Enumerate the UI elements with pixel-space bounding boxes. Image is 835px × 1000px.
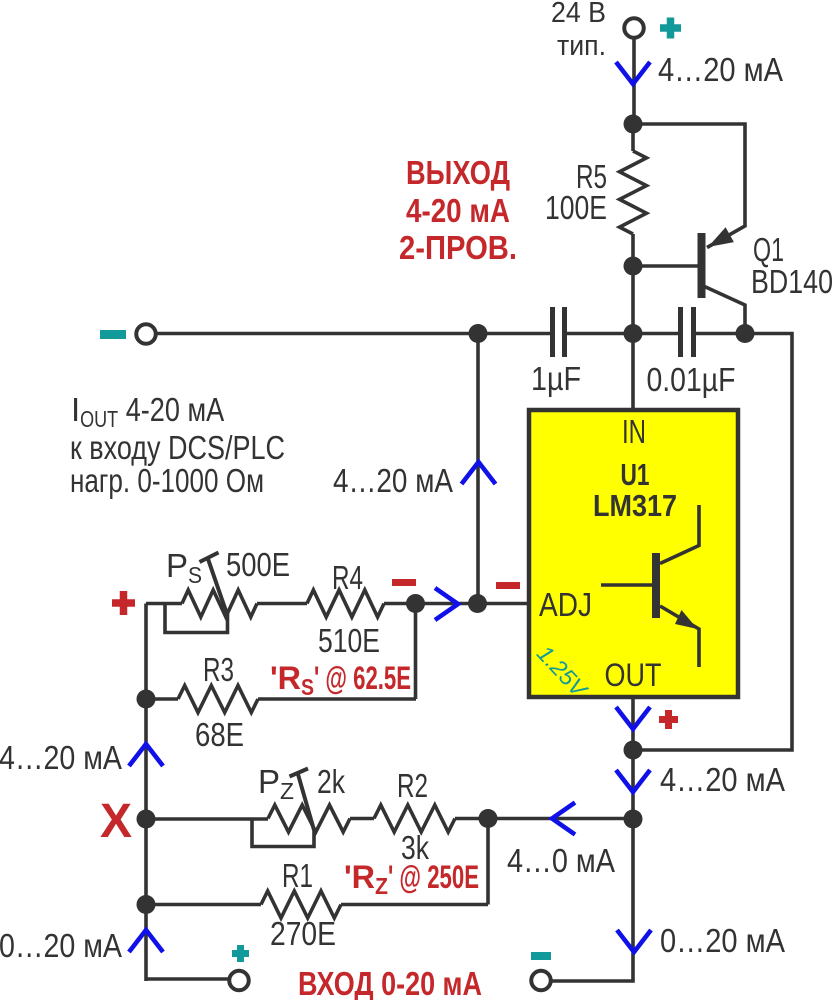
potentiometer Ps element bbox=[182, 590, 257, 617]
terminal input minus bbox=[531, 971, 551, 991]
wire R2 to feedback node bbox=[455, 817, 633, 821]
plus sign input (teal) bbox=[232, 950, 249, 957]
node ADJ feed junction bbox=[469, 324, 488, 343]
svg-text:IN: IN bbox=[622, 413, 646, 450]
node R1 left junction bbox=[137, 895, 156, 914]
svg-text:R4: R4 bbox=[332, 559, 363, 596]
current arrow into ADJ node bbox=[435, 588, 458, 620]
svg-text:2-ПРОВ.: 2-ПРОВ. bbox=[399, 229, 517, 266]
U1 internal transistor emitter bbox=[660, 606, 699, 667]
node collector junction bbox=[736, 324, 755, 343]
svg-text:0…20 мА: 0…20 мА bbox=[0, 927, 122, 964]
svg-text:ВЫХОД: ВЫХОД bbox=[406, 154, 510, 191]
wire R1 to corner bbox=[341, 903, 488, 907]
wire top terminal to node bbox=[632, 39, 636, 125]
node OUT junction bbox=[624, 741, 643, 760]
current arrow feedback (left) bbox=[552, 803, 575, 835]
wire left column to plus input terminal bbox=[146, 977, 229, 981]
wire minus terminal to C1 bbox=[157, 332, 551, 336]
current arrow 4-20 down (right mid) bbox=[616, 770, 650, 792]
node IN junction bbox=[624, 324, 643, 343]
wire R2 node down to R1 bbox=[486, 819, 490, 905]
transistor Q1 bar bbox=[698, 233, 706, 298]
wire IN node to C2 bbox=[633, 332, 678, 336]
svg-text:4…20 мА: 4…20 мА bbox=[0, 739, 122, 776]
node R2 right junction bbox=[479, 809, 498, 828]
current arrow 4-20 up (left) bbox=[129, 744, 163, 766]
IC U1 LM317 body bbox=[529, 410, 738, 697]
svg-text:'RZ' @ 250E: 'RZ' @ 250E bbox=[344, 859, 479, 899]
svg-text:U1: U1 bbox=[621, 457, 650, 492]
wire IN pin bbox=[631, 334, 635, 411]
resistor R1 bbox=[261, 891, 341, 918]
U1 internal transistor base wire bbox=[601, 583, 652, 587]
svg-text:1µF: 1µF bbox=[531, 360, 581, 397]
capacitor C2 0.01uF bbox=[678, 307, 683, 357]
wire left node to R3 bbox=[146, 697, 178, 701]
minus sign output (teal) bbox=[100, 330, 126, 339]
terminal minus output bbox=[136, 324, 156, 344]
wire R4 to node bbox=[384, 602, 416, 606]
potentiometer Pz element bbox=[268, 805, 350, 832]
plus sign left (red) bbox=[112, 599, 135, 607]
Ps rheostat loop bbox=[165, 604, 228, 633]
svg-text:0.01µF: 0.01µF bbox=[647, 361, 736, 398]
resistor R3 bbox=[178, 686, 258, 713]
svg-text:нагр. 0-1000 Ом: нагр. 0-1000 Ом bbox=[70, 462, 264, 499]
wire ADJ pin to node bbox=[478, 602, 530, 606]
svg-text:LM317: LM317 bbox=[593, 488, 677, 523]
resistor R4 bbox=[307, 590, 384, 617]
node feedback junction bbox=[624, 810, 643, 829]
svg-text:100E: 100E bbox=[545, 189, 607, 226]
terminal 24V supply bbox=[624, 18, 644, 38]
current arrow 4-20mA up (mid) bbox=[462, 462, 496, 484]
wire X node to Pz bbox=[146, 817, 268, 821]
svg-text:4…0 мА: 4…0 мА bbox=[507, 842, 615, 879]
current arrow 0-20 up (left) bbox=[129, 930, 163, 952]
wire C1 to IN node bbox=[567, 332, 634, 336]
U1 internal transistor collector bbox=[660, 505, 699, 564]
U1 internal transistor bar bbox=[652, 553, 660, 618]
node R4 junction bbox=[406, 594, 425, 613]
current arrow 0-20 down (bottom right) bbox=[617, 930, 651, 952]
wire Q1 collector bbox=[705, 287, 746, 334]
svg-text:R3: R3 bbox=[203, 651, 234, 688]
svg-text:BD140: BD140 bbox=[751, 263, 833, 300]
svg-text:500E: 500E bbox=[226, 546, 290, 583]
svg-text:510E: 510E bbox=[318, 622, 380, 659]
node R3 left junction bbox=[137, 690, 156, 709]
terminal input plus bbox=[229, 971, 249, 991]
resistor R2 bbox=[374, 805, 455, 832]
svg-text:к входу DCS/PLC: к входу DCS/PLC bbox=[70, 429, 285, 466]
wire R5 to base node bbox=[631, 234, 635, 266]
current arrow 4-20mA down (top) bbox=[616, 62, 650, 84]
wire Pz to R2 bbox=[350, 817, 374, 821]
minus sign near ADJ (red) bbox=[496, 582, 520, 589]
U1 internal emitter arrow bbox=[675, 610, 698, 629]
node base junction bbox=[624, 257, 643, 276]
svg-text:R2: R2 bbox=[397, 767, 428, 804]
Pz rheostat loop bbox=[252, 819, 314, 847]
svg-text:OUT: OUT bbox=[605, 657, 662, 693]
wire Q1 emitter from top node bbox=[633, 124, 745, 248]
svg-text:ВХОД 0-20 мА: ВХОД 0-20 мА bbox=[298, 965, 482, 1000]
resistor R5 bbox=[620, 151, 647, 234]
label 1.25V (teal, rotated) bbox=[532, 640, 594, 704]
wire right column to bottom terminal bbox=[552, 819, 634, 981]
svg-text:X: X bbox=[100, 795, 132, 848]
wire ADJ node to R4 node bbox=[416, 602, 478, 606]
wire C2 to collector node bbox=[696, 332, 745, 336]
Ps wiper bbox=[208, 558, 228, 616]
wire ADJ feed vertical bbox=[476, 334, 480, 604]
svg-text:270E: 270E bbox=[270, 915, 336, 952]
svg-text:68E: 68E bbox=[195, 716, 244, 753]
wire R3 to riser bbox=[258, 697, 416, 701]
wire plus corner to Ps bbox=[146, 602, 182, 606]
wire left column vertical bbox=[144, 604, 148, 982]
node top junction bbox=[624, 115, 643, 134]
wire riser R3 to R4 node bbox=[414, 604, 418, 700]
minus sign input (teal) bbox=[531, 952, 551, 960]
wire OUT node down bbox=[631, 750, 635, 819]
svg-text:0…20 мА: 0…20 мА bbox=[660, 922, 785, 959]
node ADJ junction bbox=[468, 594, 487, 613]
wire R4 to Ps bbox=[257, 602, 307, 606]
svg-text:4-20 мА: 4-20 мА bbox=[406, 192, 510, 229]
svg-text:4…20 мА: 4…20 мА bbox=[660, 761, 785, 798]
svg-text:4…20 мА: 4…20 мА bbox=[658, 51, 783, 88]
svg-text:тип.: тип. bbox=[557, 30, 606, 62]
svg-text:R1: R1 bbox=[282, 857, 313, 894]
wire base node down to cap node bbox=[631, 266, 635, 333]
svg-text:2k: 2k bbox=[317, 763, 345, 800]
wire left node to R1 bbox=[146, 903, 261, 907]
svg-text:ADJ: ADJ bbox=[539, 586, 592, 623]
Pz wiper bbox=[298, 773, 315, 831]
svg-text:24 В: 24 В bbox=[551, 0, 606, 29]
wire OUT pin bbox=[631, 697, 635, 750]
svg-text:4…20 мА: 4…20 мА bbox=[333, 462, 453, 499]
node X junction bbox=[137, 810, 156, 829]
svg-text:'RS' @ 62.5E: 'RS' @ 62.5E bbox=[270, 660, 411, 700]
wire collector node to right rail down to OUT node bbox=[633, 334, 792, 751]
current arrow out of OUT bbox=[616, 707, 650, 729]
wire node to R5 bbox=[631, 124, 635, 151]
minus sign near R4 (red) bbox=[392, 579, 416, 586]
transistor Q1 base wire bbox=[633, 264, 698, 268]
plus sign OUT node (red) bbox=[659, 716, 678, 723]
plus sign supply (teal) bbox=[660, 24, 681, 32]
capacitor C1 1uF bbox=[550, 307, 555, 357]
Q1 emitter arrow (PNP) bbox=[708, 227, 734, 247]
